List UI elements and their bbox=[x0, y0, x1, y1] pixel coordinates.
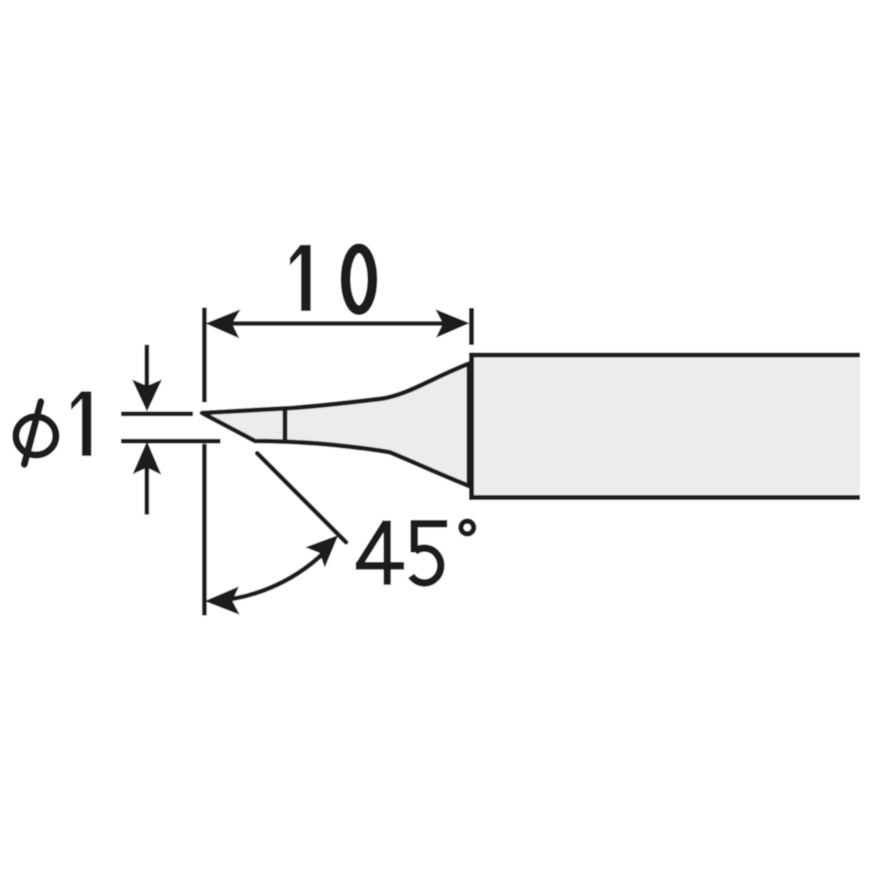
bevel boundary tick bbox=[283, 409, 288, 442]
label 10 : digit 1 bbox=[290, 245, 311, 311]
dimension line for 10 bbox=[229, 321, 446, 326]
label 45 : digit 5 bbox=[411, 521, 447, 583]
label degree symbol bbox=[461, 521, 474, 534]
45 degree slanted leader line bbox=[257, 453, 346, 542]
down arrow of phi-1 bbox=[133, 345, 161, 411]
arc arrowhead right (at slanted line) bbox=[307, 536, 338, 566]
tip cone with chisel bevel bbox=[202, 364, 469, 487]
up arrow of phi-1 bbox=[134, 443, 161, 515]
label 45 : digit 4 bbox=[356, 521, 404, 585]
phi-1 upper gauge line bbox=[121, 411, 193, 416]
extension line right (x=471.5) bbox=[469, 308, 474, 345]
label 10 : digit 0 bbox=[346, 248, 373, 310]
phi-1 lower gauge line bbox=[121, 439, 221, 444]
label phi symbol bbox=[16, 402, 56, 465]
arrowhead right of dimension 10 bbox=[437, 310, 469, 337]
extension line left (x=204) bbox=[202, 308, 207, 616]
arrowhead left of dimension 10 bbox=[207, 310, 240, 337]
arc arrowhead left (at vertical line) bbox=[206, 587, 239, 613]
shank (cylindrical body of soldering tip) bbox=[469, 353, 860, 500]
label 1 of phi-1 bbox=[71, 391, 91, 456]
angle arc bbox=[210, 546, 331, 602]
